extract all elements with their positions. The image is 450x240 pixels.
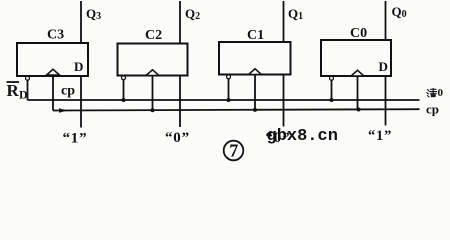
clock edge-trigger triangle U4	[351, 70, 364, 76]
wire U2 D input	[179, 76, 181, 128]
flip-flop U2 (C2) box	[118, 44, 188, 76]
wire clear bus (qing-0 / R_D line)	[28, 99, 420, 101]
flip-flop U4 (C0) box	[321, 40, 391, 76]
figure number circled 7	[224, 141, 244, 161]
svg-text:C1: C1	[247, 28, 264, 43]
flip-flop U1 (C3) box	[17, 43, 88, 76]
clock edge-trigger triangle U2	[146, 70, 159, 76]
junction on clear bus at U4	[330, 98, 334, 102]
junction on cp bus at U3	[253, 108, 257, 112]
wire U3 reset stub	[228, 79, 230, 100]
svg-text:cp: cp	[61, 84, 75, 99]
inverting bubble U2 reset pin	[122, 76, 126, 80]
svg-text:7: 7	[229, 141, 238, 161]
wire U2 clock stub	[152, 76, 154, 111]
svg-text:R: R	[7, 81, 20, 100]
svg-text:“0”: “0”	[165, 130, 190, 146]
wire U2 reset stub	[123, 80, 125, 100]
svg-text:cp: cp	[426, 102, 439, 117]
svg-text:C0: C0	[350, 26, 367, 41]
svg-text:D: D	[74, 59, 83, 74]
svg-text:C3: C3	[47, 28, 64, 43]
wire Q1 output	[283, 1, 285, 42]
wire Q2 output	[179, 1, 181, 44]
svg-text:“1”: “1”	[63, 131, 88, 147]
wire cp clock bus	[53, 109, 420, 110]
junction on cp bus at U2	[151, 108, 155, 112]
wire Q3 output	[80, 1, 82, 43]
label qing-0 (clear to 0) at right end of clear bus	[427, 89, 437, 98]
svg-text:gbx8.cn: gbx8.cn	[267, 127, 338, 146]
wire U4 clock stub	[357, 76, 359, 110]
junction on clear bus at U3	[227, 98, 231, 102]
wire Q0 output	[385, 1, 387, 40]
wire U3 D input	[283, 75, 285, 127]
junction on cp bus at U4	[357, 108, 361, 112]
inverting bubble U1 reset pin	[26, 76, 30, 80]
clock edge-trigger triangle U3	[249, 69, 262, 75]
wire U1 D input	[80, 76, 82, 128]
svg-text:0: 0	[438, 87, 444, 99]
label R_D-bar (active-low reset)	[7, 81, 29, 102]
arrowhead on cp bus	[59, 108, 68, 112]
svg-text:D: D	[19, 88, 28, 102]
wire U3 clock stub	[254, 75, 256, 111]
clock edge-trigger triangle U1	[47, 69, 60, 75]
wire U4 D input	[385, 76, 387, 126]
junction on clear bus at U2	[122, 98, 126, 102]
inverting bubble U4 reset pin	[330, 76, 334, 80]
flip-flop U3 (C1) box	[219, 42, 291, 75]
wire U4 reset stub	[331, 80, 333, 100]
svg-text:“1”: “1”	[368, 128, 392, 144]
svg-text:C2: C2	[145, 28, 162, 43]
inverting bubble U3 reset pin	[227, 75, 231, 79]
svg-text:D: D	[379, 59, 388, 74]
wire U1 reset stub	[27, 80, 29, 100]
wire U1 clock stub	[52, 76, 54, 111]
